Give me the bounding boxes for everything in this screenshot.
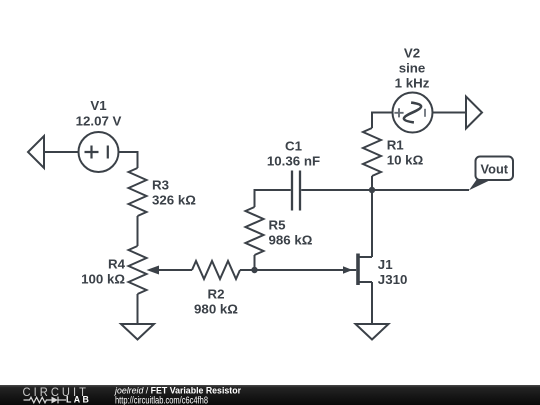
- wire (C1 right plate to node B): [301, 189, 372, 191]
- flag Vout: [469, 157, 513, 191]
- wire (R1 bottom lead): [371, 176, 373, 190]
- resistor R3: [129, 168, 197, 216]
- svg-text:326 kΩ: 326 kΩ: [152, 193, 196, 208]
- svg-text:V1: V1: [90, 98, 107, 113]
- svg-text:http://circuitlab.com/c6c4fh8: http://circuitlab.com/c6c4fh8: [115, 396, 208, 405]
- wire (node B to Vout tail): [372, 189, 469, 191]
- wire (R1 top to V2): [372, 113, 393, 129]
- transistor J1: [343, 254, 407, 288]
- svg-text:R2: R2: [208, 286, 225, 301]
- wire (J1 source to ground): [371, 282, 373, 324]
- ground (left of V1): [28, 136, 44, 168]
- resistor R2: [192, 261, 240, 317]
- svg-text:12.07 V: 12.07 V: [76, 113, 122, 128]
- wire (R2 to node A): [240, 269, 255, 271]
- resistor R1: [363, 128, 424, 176]
- wire (node B down to J1 drain): [371, 190, 373, 257]
- svg-text:1 kHz: 1 kHz: [395, 76, 430, 91]
- svg-text:100 kΩ: 100 kΩ: [81, 272, 125, 287]
- wire (left ground to V1): [44, 151, 79, 153]
- voltage source V2: [393, 45, 433, 132]
- node B (junction C1/R1/J1 drain/Vout): [369, 187, 375, 193]
- ground (below J1): [356, 324, 389, 340]
- svg-text:R4: R4: [108, 257, 126, 272]
- ground (right of V2): [466, 97, 482, 129]
- ground (below R4): [121, 324, 154, 340]
- svg-text:R1: R1: [387, 138, 405, 153]
- wire (R4 to ground): [137, 294, 139, 324]
- node A (junction R2/R5/gate): [251, 267, 257, 273]
- wire (R5 bottom lead): [254, 255, 256, 270]
- svg-text:V2: V2: [404, 45, 420, 60]
- svg-text:Vout: Vout: [481, 161, 509, 176]
- wire (V1 to R3): [119, 152, 138, 168]
- capacitor C1: [267, 139, 320, 211]
- wire (V2 to right ground): [433, 112, 467, 114]
- svg-text:J310: J310: [378, 272, 408, 287]
- potentiometer R4: [81, 246, 159, 294]
- svg-text:J1: J1: [378, 257, 393, 272]
- CircuitLab logo: [23, 386, 92, 405]
- svg-text:R3: R3: [152, 177, 169, 192]
- svg-text:sine: sine: [399, 61, 426, 76]
- voltage source V1: [76, 98, 122, 172]
- svg-text:C1: C1: [285, 139, 303, 154]
- svg-text:10.36 nF: 10.36 nF: [267, 154, 320, 169]
- wire (R4 wiper to R2): [159, 269, 192, 271]
- svg-text:986 kΩ: 986 kΩ: [269, 233, 313, 248]
- svg-text:980 kΩ: 980 kΩ: [194, 302, 238, 317]
- svg-text:10 kΩ: 10 kΩ: [387, 153, 424, 168]
- wire (R5 top to C1 left plate): [255, 190, 291, 207]
- resistor R5: [246, 207, 313, 255]
- svg-text:R5: R5: [269, 217, 287, 232]
- wire (node A to J1 gate): [255, 269, 357, 271]
- wire (R3 to R4): [137, 216, 139, 246]
- footer bar: [0, 385, 540, 405]
- svg-text:LAB: LAB: [66, 395, 91, 405]
